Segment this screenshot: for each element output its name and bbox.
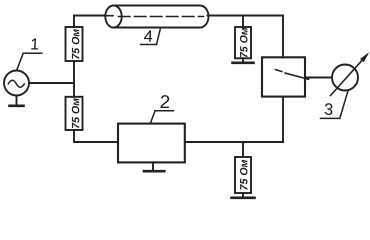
resistor 75 Ом (lower left) bbox=[66, 97, 83, 130]
box 2 (device under test) bbox=[118, 124, 185, 163]
label 2 bbox=[150, 95, 173, 124]
meter 3 (indicator with arrow) bbox=[331, 52, 370, 95]
label 4 bbox=[141, 28, 161, 45]
wire stub to R3 bbox=[242, 16, 244, 28]
wire switch box bottom to bottom-right corner bbox=[185, 97, 283, 142]
switch box (between coax and meter) bbox=[262, 57, 305, 96]
wire stub to R4 bbox=[242, 142, 244, 157]
wire left vertical (R1 top to top-left corner, then right to coax) bbox=[74, 16, 107, 28]
wire generator to left node bbox=[29, 82, 73, 84]
label 3 bbox=[321, 90, 349, 119]
wire coax right to top-right corner down to switch box bbox=[208, 16, 284, 58]
switch arm inside box bbox=[276, 70, 309, 80]
ground (R4) bbox=[232, 193, 255, 198]
resistor 75 Ом (lower right) bbox=[235, 157, 251, 193]
label 1 bbox=[17, 38, 42, 70]
generator 1 (AC source) bbox=[4, 71, 29, 96]
resistor 75 Ом (upper left) bbox=[66, 27, 83, 61]
ground (R3) bbox=[233, 58, 254, 63]
wire generator node down to R2 bbox=[73, 83, 75, 97]
resistor 75 Ом (upper right) bbox=[235, 27, 251, 58]
value label 75 Ом (upper left) bbox=[72, 29, 80, 59]
value label 75 Ом (lower right) bbox=[240, 160, 248, 190]
ground (box 2) bbox=[144, 162, 164, 171]
ground (generator) bbox=[10, 96, 24, 106]
wire switch box to meter 3 bbox=[305, 77, 333, 79]
wire R1 bottom to generator node bbox=[73, 61, 75, 83]
wire R2 bottom to bottom-left corner to box 2 bbox=[74, 130, 118, 142]
value label 75 Ом (upper right) bbox=[240, 28, 248, 58]
coaxial line 4 (cylinder) bbox=[105, 6, 209, 28]
value label 75 Ом (lower left) bbox=[72, 98, 80, 128]
